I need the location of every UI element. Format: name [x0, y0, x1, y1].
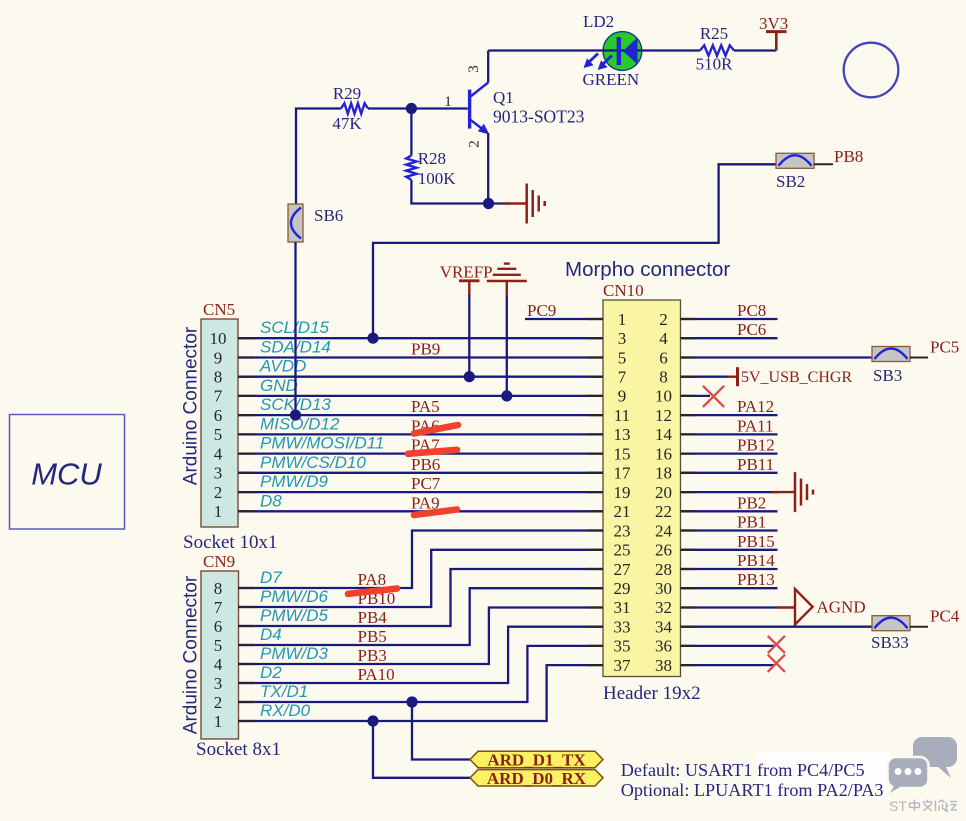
wire CN10 pin 30 (PB13)	[681, 587, 778, 589]
svg-text:19: 19	[614, 483, 631, 502]
net label PB5	[358, 627, 387, 646]
watermark logo	[887, 737, 957, 796]
wire Q1 emitter down	[487, 133, 489, 204]
net label PB13	[737, 570, 775, 589]
wire CN10 pin 6 to SB3	[681, 356, 873, 358]
svg-text:D8: D8	[260, 491, 282, 510]
svg-text:27: 27	[614, 560, 632, 579]
svg-text:31: 31	[614, 598, 631, 617]
Q1 pin 1 number	[444, 94, 452, 110]
wire CN10 pin 34 to SB33	[681, 626, 873, 628]
net label PB2	[737, 493, 766, 512]
wire CN9 pin 1 row (RX/D0) to CN10 pin 37	[238, 665, 603, 721]
CN10 designator	[603, 281, 644, 300]
svg-text:30: 30	[655, 579, 672, 598]
CN9 pin numbers 8-1	[214, 579, 223, 731]
junction R29/R28 node	[406, 103, 417, 114]
wire CN5 pin 9 row (SDA/D14) to CN10 pin 5	[238, 356, 603, 358]
wire SB2 to PB8	[814, 163, 833, 165]
svg-text:PC5: PC5	[930, 338, 959, 357]
svg-text:6: 6	[214, 617, 223, 636]
wire SB3 to PC5	[910, 357, 928, 359]
svg-text:CN9: CN9	[203, 552, 235, 571]
svg-text:8: 8	[214, 579, 223, 598]
svg-text:PC4: PC4	[930, 607, 960, 626]
wire CN10 pin 10 (no ERC)	[681, 395, 711, 397]
connector CN9 body	[201, 571, 239, 739]
wire CN10 pin 8 (5V_USB_CHGR)	[681, 376, 729, 378]
label Arduino Connector (CN9)	[181, 575, 202, 734]
annotation scribble under PA9	[414, 510, 457, 516]
net label PB9	[411, 340, 440, 359]
svg-text:3: 3	[618, 329, 627, 348]
svg-text:PMW/D9: PMW/D9	[260, 472, 329, 491]
net label PA8	[358, 570, 387, 589]
junction SB6/SCK-D13	[290, 410, 301, 421]
net label PA5	[411, 397, 440, 416]
port ARD_D1_TX	[470, 751, 603, 770]
svg-text:PA5: PA5	[411, 397, 440, 416]
svg-text:PMW/D6: PMW/D6	[260, 587, 329, 606]
no-ERC marker pin 36	[768, 636, 785, 653]
net label PC4	[930, 607, 960, 626]
net label PA12	[737, 397, 774, 416]
wire R29 to Q1 base	[368, 107, 468, 109]
svg-text:2: 2	[214, 483, 223, 502]
svg-text:3V3: 3V3	[759, 14, 788, 33]
svg-text:PC6: PC6	[737, 320, 766, 339]
R29 designator	[333, 84, 361, 103]
svg-text:35: 35	[614, 637, 631, 656]
annotation scribble under PA6	[414, 425, 458, 434]
net label PA11	[737, 416, 774, 435]
wire VREFP to AVDD row	[468, 295, 470, 377]
svg-text:PB14: PB14	[737, 551, 775, 570]
wire CN10 pin 14 (PA11)	[681, 433, 778, 435]
pin function label PMW/D9	[260, 472, 329, 491]
svg-text:24: 24	[655, 521, 673, 540]
svg-text:PB8: PB8	[834, 147, 863, 166]
svg-text:23: 23	[614, 521, 631, 540]
pin function label MISO/D12	[260, 414, 340, 433]
net label PC7	[411, 474, 441, 493]
Q1 pin 2 number	[467, 140, 483, 148]
wire CN10 pin 18 (PB11)	[681, 472, 778, 474]
CN9 pin stubs	[238, 588, 254, 721]
net label PA6	[411, 416, 440, 435]
Q1 value 9013-SOT23	[493, 107, 585, 127]
svg-text:5: 5	[214, 425, 223, 444]
svg-text:MCU: MCU	[31, 457, 102, 492]
wire SCL row to SB2	[373, 164, 776, 338]
label Socket 8x1	[196, 739, 281, 760]
svg-text:SB3: SB3	[873, 366, 902, 385]
svg-text:PB11: PB11	[737, 455, 774, 474]
svg-text:GREEN: GREEN	[583, 70, 640, 89]
pin function label TX/D1	[260, 682, 308, 701]
svg-text:18: 18	[655, 464, 672, 483]
svg-text:PB13: PB13	[737, 570, 775, 589]
svg-text:PA11: PA11	[737, 416, 774, 435]
svg-text:37: 37	[614, 656, 632, 675]
svg-text:6: 6	[214, 406, 223, 425]
svg-text:GND: GND	[260, 376, 298, 395]
wire CN9 pin 8 row (D7) to CN10 pin 23	[238, 531, 603, 589]
svg-text:7: 7	[618, 368, 627, 387]
svg-text:CN10: CN10	[603, 281, 644, 300]
svg-text:Header 19x2: Header 19x2	[603, 683, 701, 704]
pin function label PMW/MOSI/D11	[260, 434, 384, 453]
net label PB10	[358, 589, 396, 608]
svg-text:1: 1	[214, 712, 223, 731]
wire CN9 pin 3 row (D2) to CN10 pin 33	[238, 627, 603, 683]
CN5 designator	[203, 300, 235, 319]
wire CN5 pin 1 row (D8) to CN10 pin 21	[238, 510, 603, 512]
power port 3V3	[759, 14, 788, 51]
svg-text:510R: 510R	[696, 55, 734, 74]
wire CN5 pin 4 row (PMW/MOSI/D11) to CN10 pin 15	[238, 452, 603, 454]
svg-text:ST: ST	[889, 798, 907, 814]
wire CN5 pin 6 row (SCK/D13) to CN10 pin 11	[238, 414, 603, 416]
svg-text:D7: D7	[260, 568, 282, 587]
svg-text:PB6: PB6	[411, 455, 440, 474]
wire CN10 pin 20 to ground	[681, 491, 779, 493]
wire CN9 pin 2 row (TX/D1) to CN10 pin 35	[238, 646, 603, 702]
svg-text:13: 13	[614, 425, 631, 444]
svg-text:Q1: Q1	[493, 88, 514, 107]
wire CN10 pin 38 (no ERC)	[681, 664, 776, 666]
svg-text:20: 20	[655, 483, 672, 502]
SB3 designator	[873, 366, 902, 385]
wire CN5 pin 7 row (GND) to CN10 pin 9	[238, 395, 603, 397]
svg-text:1: 1	[444, 94, 452, 110]
annotation scribble under PA8	[348, 589, 397, 594]
CN10 pin numbers	[614, 310, 673, 675]
net label PC8	[737, 301, 766, 320]
svg-text:5: 5	[214, 636, 223, 655]
svg-text:22: 22	[655, 502, 672, 521]
wire CN10 pin 36 (no ERC)	[681, 645, 776, 647]
wire CN10 pin 22 (PB2)	[681, 510, 778, 512]
MCU block	[10, 415, 125, 530]
pin function label PMW/D3	[260, 644, 329, 663]
net label PB15	[737, 532, 775, 551]
svg-text:PB4: PB4	[358, 608, 388, 627]
svg-text:AVDD: AVDD	[259, 357, 306, 376]
LED LD2 body	[603, 32, 642, 71]
svg-text:10: 10	[210, 329, 227, 348]
resistor R25	[700, 45, 734, 55]
CN9 designator	[203, 552, 235, 571]
watermark text ST Chinese forum	[889, 798, 957, 814]
LED LD2 symbol	[584, 37, 638, 70]
svg-text:1: 1	[214, 502, 223, 521]
R25 value 510R	[696, 55, 734, 74]
port ARD_D0_RX	[470, 769, 603, 788]
svg-text:14: 14	[655, 425, 673, 444]
svg-text:100K: 100K	[418, 169, 457, 188]
R25 designator	[700, 24, 728, 43]
connector CN10 body	[603, 300, 681, 677]
wire CN5 pin 5 row (MISO/D12) to CN10 pin 13	[238, 433, 603, 435]
net label PC5	[930, 338, 959, 357]
junction earth/GND	[501, 390, 512, 401]
no-ERC marker pin 10	[703, 386, 724, 407]
CN5 pin numbers 10-1	[210, 329, 227, 521]
svg-text:3: 3	[214, 674, 223, 693]
ground at CN10 pin 20	[772, 472, 814, 512]
wire CN10 pin 2 (PC8)	[681, 318, 778, 320]
svg-text:ARD_D1_TX: ARD_D1_TX	[487, 751, 586, 770]
solder bridge SB3	[872, 347, 910, 362]
svg-text:4: 4	[659, 329, 668, 348]
svg-text:7: 7	[214, 387, 223, 406]
wire R29 left to SB6 corner	[296, 109, 341, 205]
transistor Q1	[468, 83, 489, 135]
pin function label SCK/D13	[260, 395, 331, 414]
svg-text:PB15: PB15	[737, 532, 775, 551]
ground at Q1 emitter	[503, 184, 545, 224]
svg-text:8: 8	[214, 368, 223, 387]
svg-text:15: 15	[614, 444, 631, 463]
svg-text:25: 25	[614, 541, 631, 560]
svg-text:10: 10	[655, 387, 672, 406]
svg-text:28: 28	[655, 560, 672, 579]
resistor R28	[406, 155, 416, 180]
R29 value 47K	[332, 114, 362, 133]
junction TX/D1	[406, 696, 417, 707]
svg-text:32: 32	[655, 598, 672, 617]
watermark circle	[844, 43, 899, 98]
svg-text:PC8: PC8	[737, 301, 766, 320]
junction VREFP/AVDD	[464, 371, 475, 382]
pin function label PMW/D5	[260, 606, 329, 625]
svg-text:PB12: PB12	[737, 436, 775, 455]
label Arduino Connector (CN5)	[181, 326, 202, 485]
svg-text:VREFP: VREFP	[440, 262, 493, 281]
svg-text:Socket 8x1: Socket 8x1	[196, 739, 281, 760]
svg-text:33: 33	[614, 618, 631, 637]
connector CN5 body	[201, 319, 238, 527]
svg-text:CN5: CN5	[203, 300, 235, 319]
svg-text:2: 2	[659, 310, 668, 329]
svg-text:47K: 47K	[332, 114, 362, 133]
CN10 right pin stubs	[681, 319, 697, 665]
svg-text:PA10: PA10	[358, 665, 395, 684]
net label PB4	[358, 608, 388, 627]
svg-text:26: 26	[655, 541, 672, 560]
no-ERC marker pin 38	[768, 655, 785, 672]
note Optional LPUART1	[621, 780, 884, 800]
junction RX/D0	[367, 715, 378, 726]
solder bridge SB33	[872, 616, 910, 631]
pin function label D2	[260, 663, 282, 682]
svg-text:PMW/CS/D10: PMW/CS/D10	[260, 453, 366, 472]
pin function label SDA/D14	[260, 338, 331, 357]
svg-text:3: 3	[466, 65, 482, 73]
svg-text:SB6: SB6	[314, 206, 343, 225]
label Header 19x2	[603, 683, 701, 704]
svg-text:1: 1	[618, 310, 627, 329]
wire R28 bottom to emitter node	[411, 180, 488, 204]
power port VREFP	[440, 262, 493, 296]
svg-text:D2: D2	[260, 663, 282, 682]
svg-text:6: 6	[659, 348, 668, 367]
Q1 pin 3 number	[466, 65, 482, 73]
resistor R29	[341, 103, 368, 113]
svg-text:PB5: PB5	[358, 627, 387, 646]
svg-text:PA12: PA12	[737, 397, 774, 416]
wire CN10 pin 4 (PC6)	[681, 337, 778, 339]
solder bridge SB6	[288, 204, 303, 242]
svg-text:Socket 10x1: Socket 10x1	[183, 532, 277, 553]
svg-text:PMW/MOSI/D11: PMW/MOSI/D11	[260, 434, 384, 453]
wire CN10 pin 26 (PB15)	[681, 549, 778, 551]
svg-text:5V_USB_CHGR: 5V_USB_CHGR	[741, 369, 852, 386]
svg-text:12: 12	[655, 406, 672, 425]
wire PC9 to CN10 pin 1	[525, 318, 603, 320]
power port 5V_USB_CHGR	[727, 367, 852, 386]
pin function label D7	[260, 568, 282, 587]
svg-text:PC9: PC9	[527, 301, 556, 320]
net label PC9	[527, 301, 556, 320]
svg-text:4: 4	[214, 444, 223, 463]
net label PB11	[737, 455, 774, 474]
net label PB1	[737, 513, 766, 532]
wire CN9 pin 5 row (D4) to CN10 pin 29	[238, 588, 603, 645]
wire Q1 collector up	[487, 51, 489, 83]
wire CN9 pin 7 row (PMW/D6) to CN10 pin 25	[238, 550, 603, 607]
CN10 left pin stubs	[587, 319, 603, 665]
pin function label D8	[260, 491, 282, 510]
net label PA7	[411, 436, 440, 455]
svg-text:AGND: AGND	[817, 598, 866, 617]
SB33 designator	[871, 633, 909, 652]
wire CN10 pin 32 to AGND	[681, 606, 779, 608]
net label PB3	[358, 646, 387, 665]
wire SB6 to SCK/D13 row	[294, 242, 296, 415]
wire CN9 pin 6 row (PMW/D5) to CN10 pin 27	[238, 569, 603, 626]
wire R28 top	[410, 109, 412, 156]
wire TX/D1 branch to port	[412, 702, 470, 760]
svg-text:TX/D1: TX/D1	[260, 682, 308, 701]
svg-text:LD2: LD2	[583, 12, 614, 31]
svg-text:PB2: PB2	[737, 493, 766, 512]
svg-text:PMW/D3: PMW/D3	[260, 644, 329, 663]
svg-text:17: 17	[614, 464, 632, 483]
annotation scribble through PA7	[408, 450, 457, 454]
svg-text:Arduino Connector: Arduino Connector	[181, 575, 202, 734]
wire earth to GND row	[506, 296, 508, 396]
LD2 value GREEN	[583, 70, 640, 89]
svg-text:SB33: SB33	[871, 633, 909, 652]
Q1 designator	[493, 88, 514, 107]
wire CN5 pin 3 row (PMW/CS/D10) to CN10 pin 17	[238, 472, 603, 474]
wire CN10 pin 28 (PB14)	[681, 568, 778, 570]
svg-text:PB3: PB3	[358, 646, 387, 665]
svg-text:D4: D4	[260, 625, 282, 644]
pin function label SCL/D15	[260, 318, 330, 337]
label Morpho connector	[565, 258, 730, 281]
solder bridge SB2	[776, 153, 814, 168]
wire SB33 to PC4	[910, 626, 928, 628]
svg-text:36: 36	[655, 637, 672, 656]
pin function label AVDD	[259, 357, 306, 376]
svg-text:R25: R25	[700, 24, 728, 43]
LD2 designator	[583, 12, 614, 31]
svg-text:9013-SOT23: 9013-SOT23	[493, 107, 585, 127]
net label PB8	[834, 147, 863, 166]
svg-text:Arduino Connector: Arduino Connector	[181, 326, 202, 485]
CN5 pin stubs	[238, 338, 254, 511]
svg-text:PMW/D5: PMW/D5	[260, 606, 329, 625]
wire RX/D0 branch to port	[373, 721, 470, 778]
svg-text:PA8: PA8	[358, 570, 387, 589]
pin function label GND	[260, 376, 298, 395]
svg-text:3: 3	[214, 464, 223, 483]
svg-text:ARD_D0_RX: ARD_D0_RX	[487, 769, 587, 788]
net label PB6	[411, 455, 440, 474]
pin function label D4	[260, 625, 282, 644]
svg-text:11: 11	[614, 406, 630, 425]
pin function label PMW/CS/D10	[260, 453, 366, 472]
svg-text:2: 2	[467, 140, 483, 148]
svg-text:Morpho connector: Morpho connector	[565, 258, 730, 281]
power port AGND	[777, 589, 866, 625]
junction Q1 emitter/ground	[483, 198, 494, 209]
svg-text:RX/D0: RX/D0	[260, 701, 311, 720]
svg-text:34: 34	[655, 618, 673, 637]
wire emitter node to ground	[489, 202, 511, 204]
R28 designator	[418, 149, 446, 168]
R28 value 100K	[418, 169, 457, 188]
svg-text:SB2: SB2	[776, 172, 805, 191]
net label PA10	[358, 665, 395, 684]
svg-text:Optional: LPUART1 from PA2/PA3: Optional: LPUART1 from PA2/PA3	[621, 780, 884, 800]
net label PB12	[737, 436, 775, 455]
note Default USART1	[621, 760, 865, 780]
wire CN10 pin 12 (PA12)	[681, 414, 778, 416]
svg-text:8: 8	[659, 368, 668, 387]
SB6 designator	[314, 206, 343, 225]
pin function label RX/D0	[260, 701, 311, 720]
wire CN9 pin 4 row (PMW/D3) to CN10 pin 31	[238, 608, 603, 665]
svg-text:9: 9	[214, 348, 223, 367]
wire collector to R25 (through LED)	[488, 49, 700, 51]
pin function label PMW/D6	[260, 587, 329, 606]
svg-text:R28: R28	[418, 149, 446, 168]
junction SCL/SB2 branch	[367, 333, 378, 344]
svg-text:9: 9	[618, 387, 627, 406]
svg-text:29: 29	[614, 579, 631, 598]
svg-text:16: 16	[655, 444, 672, 463]
wire CN5 pin 10 row (SCL/D15) to CN10 pin 3	[238, 337, 603, 339]
svg-text:38: 38	[655, 656, 672, 675]
svg-text:PB1: PB1	[737, 513, 766, 532]
svg-text:7: 7	[214, 598, 223, 617]
wire CN5 pin 2 row (PMW/D9) to CN10 pin 19	[238, 491, 603, 493]
svg-text:PB9: PB9	[411, 340, 440, 359]
svg-text:4: 4	[214, 655, 223, 674]
svg-text:21: 21	[614, 502, 631, 521]
ground (earth) above GND row	[487, 264, 527, 297]
net label PA9	[411, 493, 440, 512]
svg-text:2: 2	[214, 693, 223, 712]
wire R25 to 3V3	[734, 49, 776, 51]
wire CN10 pin 16 (PB12)	[681, 452, 778, 454]
svg-text:Default: USART1 from PC4/PC5: Default: USART1 from PC4/PC5	[621, 760, 865, 780]
net label PB14	[737, 551, 775, 570]
